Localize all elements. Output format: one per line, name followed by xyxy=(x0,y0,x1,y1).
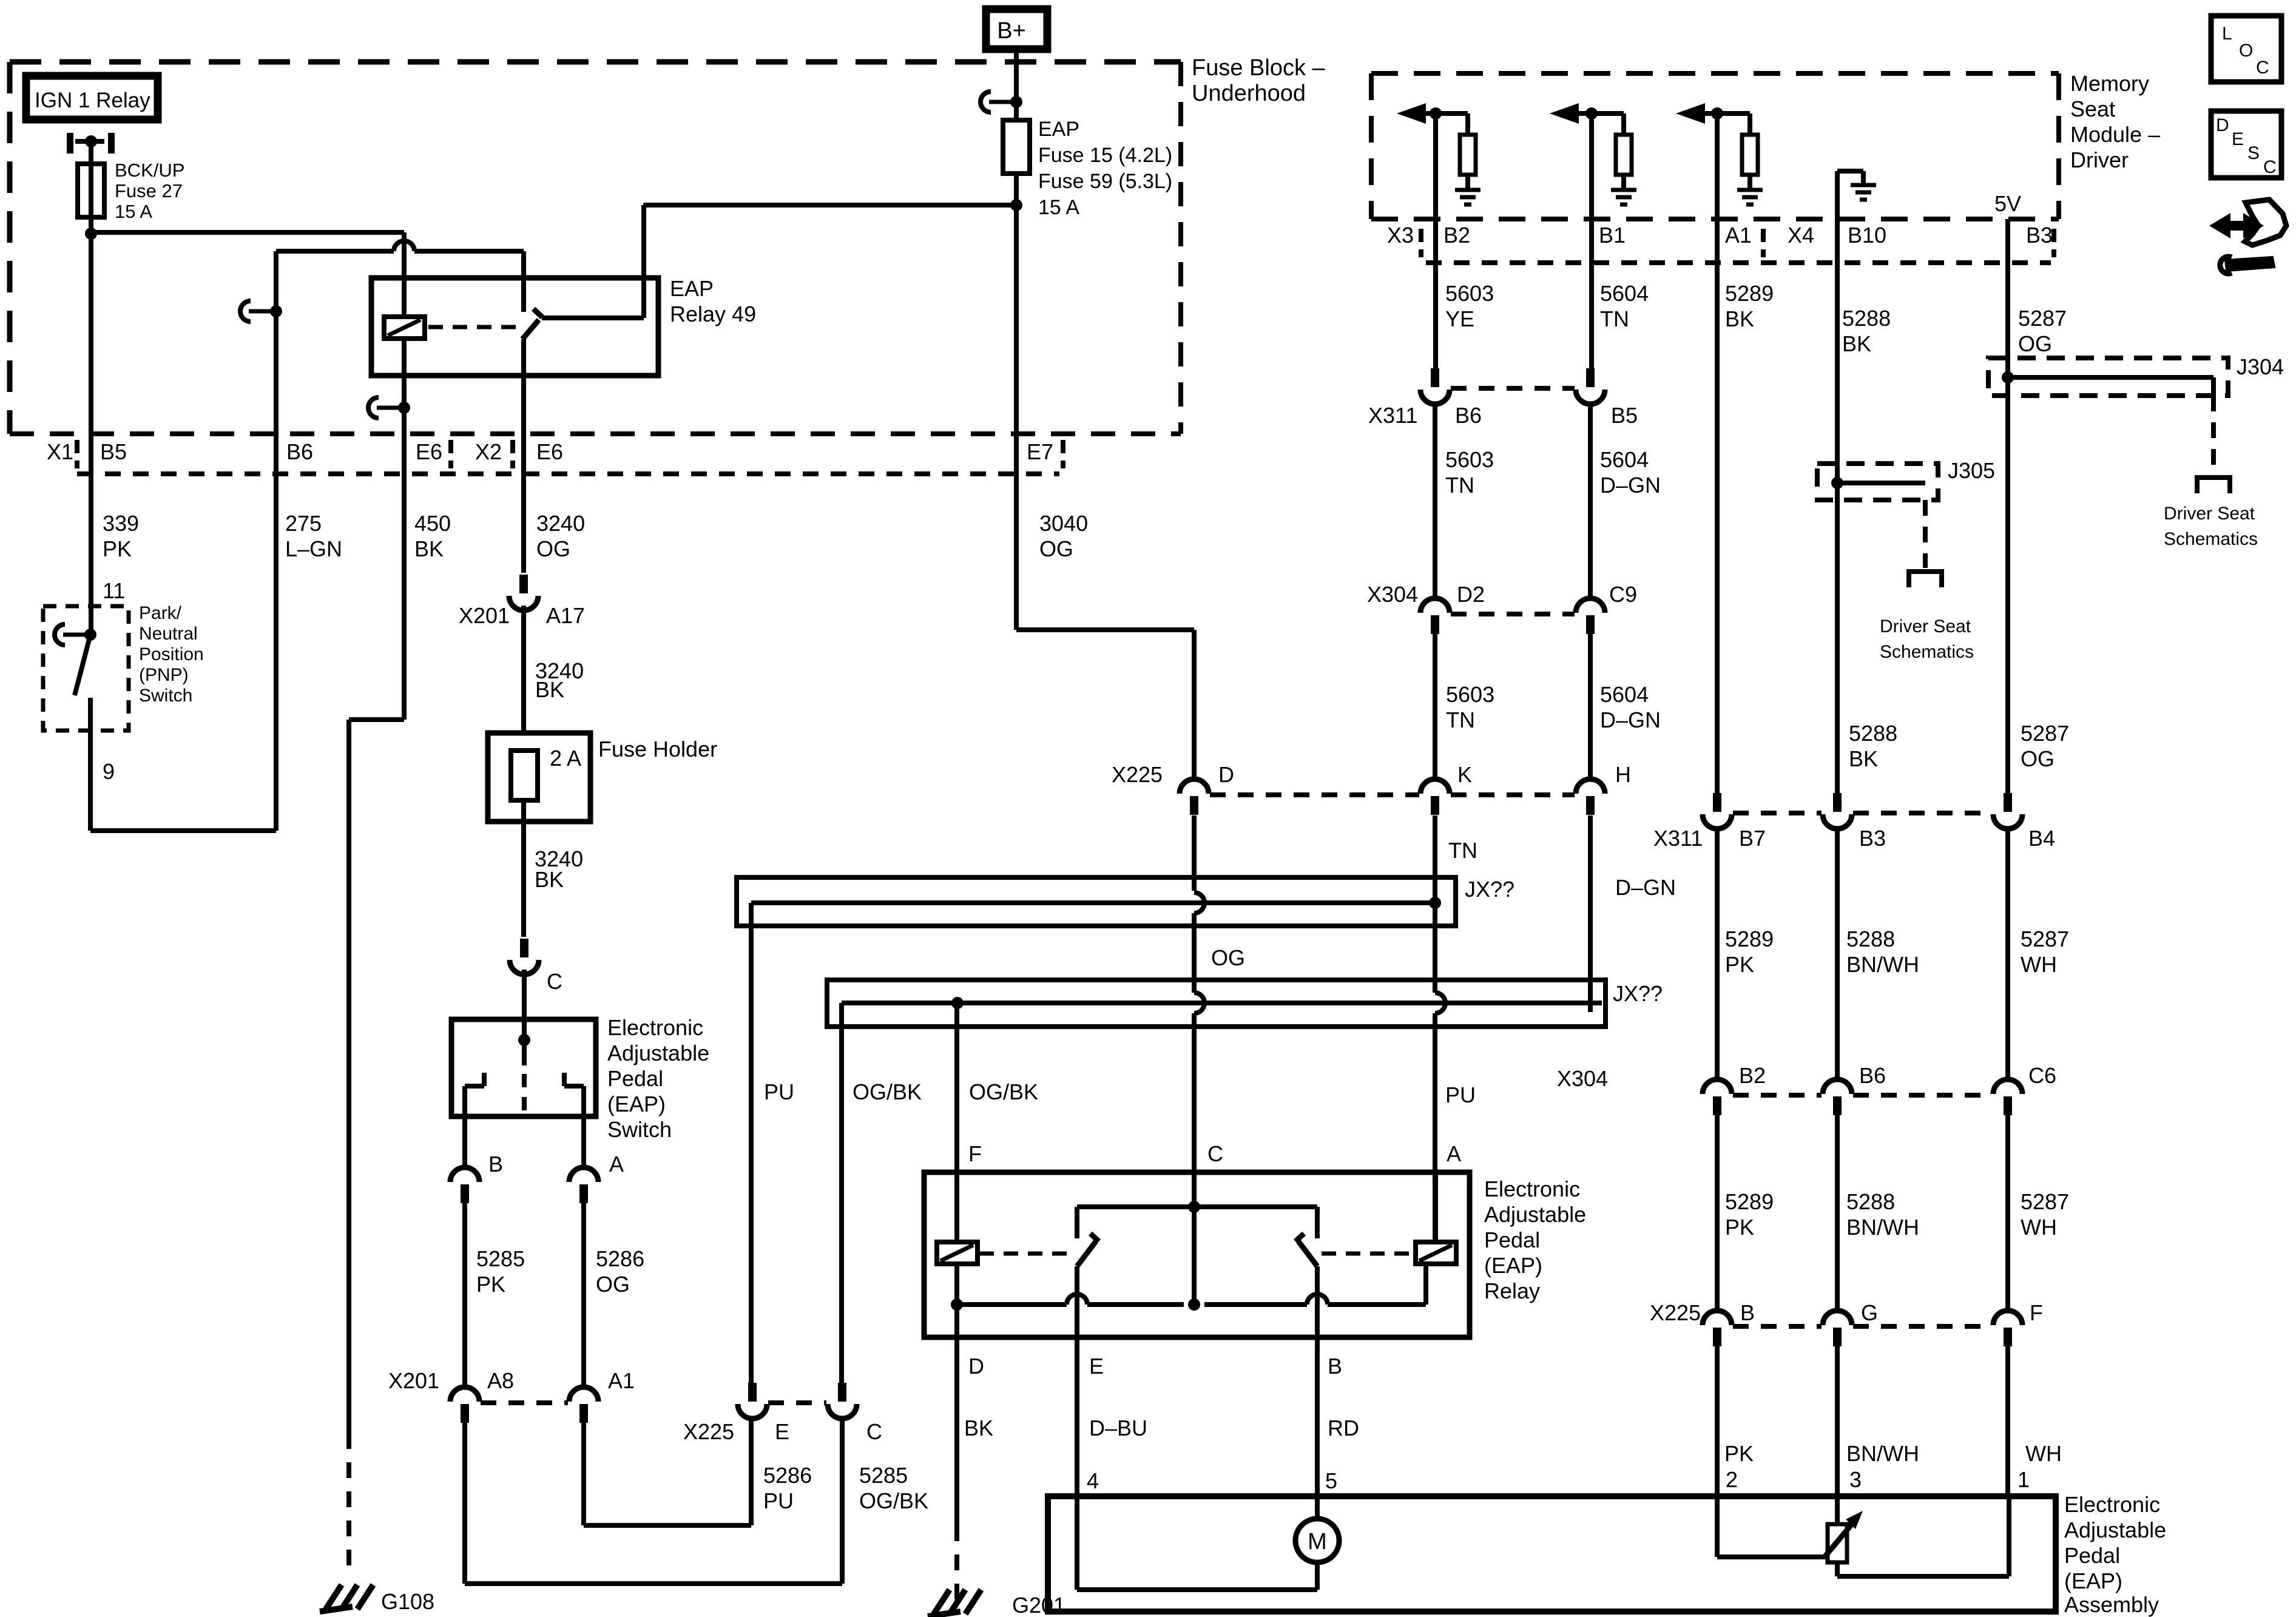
pins E and B down xyxy=(1075,1337,1079,1496)
JX bus1 inner wire xyxy=(751,900,1432,905)
svg-text:D: D xyxy=(2216,115,2229,135)
svg-text:OG/BK: OG/BK xyxy=(859,1488,928,1513)
svg-text:BN/WH: BN/WH xyxy=(1846,1441,1919,1466)
svg-text:G: G xyxy=(1861,1300,1878,1325)
svg-text:B4: B4 xyxy=(2028,826,2055,851)
svg-text:PU: PU xyxy=(763,1488,794,1513)
wire 275 L-GN riser to EAP relay coil xyxy=(274,311,279,831)
svg-text:15 A: 15 A xyxy=(115,201,152,222)
svg-text:D–GN: D–GN xyxy=(1600,707,1661,732)
Fuse Holder box xyxy=(488,733,590,822)
svg-text:PK: PK xyxy=(1724,1441,1754,1466)
svg-text:11: 11 xyxy=(103,578,125,603)
svg-text:A1: A1 xyxy=(608,1368,635,1393)
actuator dash xyxy=(428,325,521,329)
column wires below module xyxy=(1433,219,1438,368)
svg-text:5287: 5287 xyxy=(2018,306,2067,331)
relay cavity posts xyxy=(67,133,73,154)
svg-text:Pedal: Pedal xyxy=(607,1066,663,1091)
svg-text:OG/BK: OG/BK xyxy=(853,1079,922,1104)
svg-text:4: 4 xyxy=(1087,1468,1099,1493)
svg-text:B: B xyxy=(1740,1300,1755,1325)
wire pin9 to 275 xyxy=(90,828,276,833)
EAP Switch box xyxy=(451,1019,596,1116)
svg-text:275: 275 xyxy=(285,511,322,536)
svg-text:2: 2 xyxy=(1726,1467,1738,1492)
svg-text:X201: X201 xyxy=(388,1368,439,1393)
svg-text:Schematics: Schematics xyxy=(2164,529,2258,549)
svg-text:B: B xyxy=(1328,1354,1342,1379)
svg-text:WH: WH xyxy=(2021,952,2057,977)
svg-text:Relay: Relay xyxy=(1484,1278,1540,1303)
TN wire K-column xyxy=(1433,815,1437,903)
blades xyxy=(1090,1234,1099,1241)
common bar xyxy=(1077,1204,1317,1209)
svg-text:C: C xyxy=(1207,1141,1223,1166)
svg-text:3240: 3240 xyxy=(536,511,585,536)
connector xyxy=(1431,368,1439,387)
svg-text:TN: TN xyxy=(1446,707,1475,732)
DESC reference box xyxy=(2211,111,2281,178)
connector xyxy=(838,1383,846,1402)
svg-text:BK: BK xyxy=(535,677,564,702)
JX bus 1 outline xyxy=(737,877,1456,926)
JX bus 2 outline xyxy=(827,980,1606,1027)
connector A xyxy=(569,1167,598,1182)
svg-text:JX??: JX?? xyxy=(1465,877,1514,902)
svg-text:5287: 5287 xyxy=(2021,927,2069,951)
pin 2 wire xyxy=(1715,1496,1720,1557)
svg-text:Electronic: Electronic xyxy=(607,1015,703,1040)
svg-text:Pedal: Pedal xyxy=(1484,1227,1540,1252)
svg-text:X304: X304 xyxy=(1557,1066,1608,1091)
svg-text:Electronic: Electronic xyxy=(2064,1492,2160,1517)
svg-text:Fuse 27: Fuse 27 xyxy=(115,180,183,201)
svg-text:5: 5 xyxy=(1325,1468,1337,1493)
X3/X4 row xyxy=(1426,260,2051,265)
svg-text:Driver Seat: Driver Seat xyxy=(2164,504,2255,524)
svg-text:Switch: Switch xyxy=(139,686,192,706)
svg-text:C6: C6 xyxy=(2028,1063,2056,1088)
connector xyxy=(1713,793,1721,812)
svg-text:X304: X304 xyxy=(1367,582,1418,607)
svg-text:B: B xyxy=(488,1152,503,1176)
svg-text:5285: 5285 xyxy=(476,1246,525,1271)
connector xyxy=(450,1387,479,1402)
svg-text:C: C xyxy=(547,969,562,994)
svg-text:Adjustable: Adjustable xyxy=(2064,1517,2166,1542)
svg-text:B2: B2 xyxy=(1739,1063,1766,1088)
OG/BK drop to relay F xyxy=(954,1003,959,1242)
svg-text:5604: 5604 xyxy=(1600,447,1649,472)
connector xyxy=(1993,1311,2022,1325)
LOC reference box xyxy=(2211,16,2281,82)
svg-text:B1: B1 xyxy=(1599,223,1626,248)
svg-text:5289: 5289 xyxy=(1725,1189,1774,1214)
connector xyxy=(1420,779,1450,794)
connector row line X1/X2 xyxy=(77,471,1059,476)
svg-text:5288: 5288 xyxy=(1846,927,1895,951)
relay 49 coil xyxy=(384,317,425,339)
svg-text:X225: X225 xyxy=(1650,1300,1701,1325)
svg-text:X2: X2 xyxy=(475,439,502,464)
svg-text:15 A: 15 A xyxy=(1038,196,1079,219)
svg-text:5287: 5287 xyxy=(2021,1189,2069,1214)
svg-text:O: O xyxy=(2239,41,2253,61)
svg-text:5288: 5288 xyxy=(1849,721,1897,746)
wires down from arrows xyxy=(1433,113,1438,219)
svg-text:D2: D2 xyxy=(1457,582,1485,607)
EAP Relay 49 box xyxy=(371,278,658,376)
svg-text:Driver Seat: Driver Seat xyxy=(1880,616,1971,636)
connector xyxy=(1576,598,1605,613)
Fuse Block Underhood outline xyxy=(10,59,1181,65)
svg-text:A: A xyxy=(609,1152,624,1176)
wire to G108 xyxy=(346,720,351,1433)
svg-text:OG/BK: OG/BK xyxy=(969,1079,1038,1104)
svg-text:BK: BK xyxy=(1725,306,1754,331)
svg-text:5288: 5288 xyxy=(1846,1189,1895,1214)
svg-text:5604: 5604 xyxy=(1600,281,1649,306)
svg-text:E: E xyxy=(2232,129,2244,149)
svg-text:2 A: 2 A xyxy=(550,746,581,771)
connector xyxy=(1420,598,1450,613)
svg-text:YE: YE xyxy=(1445,306,1474,331)
node below fuse 27 xyxy=(85,228,97,240)
svg-text:TN: TN xyxy=(1600,306,1629,331)
svg-text:J304: J304 xyxy=(2237,354,2284,379)
svg-text:Driver: Driver xyxy=(2070,147,2129,172)
adjust icon xyxy=(2209,213,2264,238)
svg-text:B5: B5 xyxy=(1611,403,1638,428)
connector xyxy=(1833,793,1842,812)
B+ label box xyxy=(986,9,1047,49)
svg-text:Assembly: Assembly xyxy=(2064,1592,2159,1617)
fuse EAP Fuse 15/59 xyxy=(1003,120,1030,174)
svg-text:X225: X225 xyxy=(1112,762,1163,787)
svg-text:Memory: Memory xyxy=(2070,71,2149,96)
module outputs: arrow+resistor+ground x3 xyxy=(1397,103,1426,124)
EAP Relay box xyxy=(924,1172,1470,1337)
svg-text:D–GN: D–GN xyxy=(1600,473,1661,498)
connector xyxy=(1703,1079,1732,1094)
svg-text:C: C xyxy=(866,1419,882,1444)
svg-text:B10: B10 xyxy=(1848,223,1886,248)
B+ feed horizontal xyxy=(643,203,1016,208)
svg-text:Adjustable: Adjustable xyxy=(607,1041,709,1065)
svg-text:Park/: Park/ xyxy=(139,603,182,623)
JX bus2 inner wire xyxy=(842,1001,1602,1005)
svg-text:EAP: EAP xyxy=(670,276,714,301)
svg-text:Neutral: Neutral xyxy=(139,624,198,644)
svg-text:5603: 5603 xyxy=(1445,281,1494,306)
svg-text:5286: 5286 xyxy=(763,1463,812,1488)
connector X201 A17 xyxy=(519,575,528,593)
svg-text:C: C xyxy=(2256,58,2269,78)
connector xyxy=(1823,1311,1852,1325)
pin D to G201 xyxy=(954,1337,959,1525)
svg-text:Fuse 59 (5.3L): Fuse 59 (5.3L) xyxy=(1038,170,1172,193)
connector xyxy=(1576,779,1605,794)
svg-text:F: F xyxy=(2030,1300,2043,1325)
motor M in EAP assembly xyxy=(1295,1519,1339,1562)
svg-text:5289: 5289 xyxy=(1725,281,1774,306)
svg-text:D–GN: D–GN xyxy=(1615,875,1676,900)
svg-text:450: 450 xyxy=(414,511,451,536)
svg-text:339: 339 xyxy=(103,511,139,536)
svg-text:5286: 5286 xyxy=(596,1246,644,1271)
svg-text:A: A xyxy=(1447,1141,1461,1166)
relay 49 switch xyxy=(641,205,646,318)
fuse BCK/UP Fuse 27 15A xyxy=(78,164,104,217)
svg-text:Pedal: Pedal xyxy=(2064,1543,2120,1568)
OG wire hops xyxy=(1192,815,1197,891)
svg-text:L–GN: L–GN xyxy=(285,536,342,561)
svg-text:G108: G108 xyxy=(381,1589,434,1614)
svg-text:5287: 5287 xyxy=(2021,721,2069,746)
svg-text:D: D xyxy=(1218,762,1234,787)
connector xyxy=(1823,1079,1852,1094)
potentiometer (pedal position sensor) xyxy=(1835,1496,1840,1524)
svg-text:RD: RD xyxy=(1328,1416,1359,1440)
svg-text:E6: E6 xyxy=(536,439,563,464)
svg-text:D–BU: D–BU xyxy=(1089,1416,1147,1440)
connector xyxy=(1180,779,1209,794)
svg-text:(PNP): (PNP) xyxy=(139,665,189,685)
svg-text:5285: 5285 xyxy=(859,1463,908,1488)
svg-text:5V: 5V xyxy=(1994,191,2021,216)
EAP relay coil 1 xyxy=(937,1242,977,1264)
svg-text:Module –: Module – xyxy=(2070,122,2160,147)
B10 internal ground xyxy=(1835,171,1840,219)
svg-text:OG: OG xyxy=(2018,331,2052,356)
svg-text:BK: BK xyxy=(1849,746,1878,771)
svg-text:A8: A8 xyxy=(487,1368,514,1393)
coil output 450 BK xyxy=(402,339,407,434)
svg-text:X225: X225 xyxy=(683,1419,734,1444)
svg-text:B2: B2 xyxy=(1443,223,1470,248)
svg-text:Fuse Block –: Fuse Block – xyxy=(1192,55,1326,81)
Memory Seat Module box xyxy=(1371,71,2059,76)
svg-text:WH: WH xyxy=(2021,1215,2057,1240)
connector B xyxy=(450,1167,479,1182)
svg-text:(EAP): (EAP) xyxy=(2064,1568,2122,1593)
svg-text:PU: PU xyxy=(764,1079,794,1104)
ground G108 xyxy=(326,1585,342,1609)
svg-text:X3: X3 xyxy=(1387,223,1414,248)
PU / OGBK wires up xyxy=(749,903,754,1383)
svg-text:IGN 1 Relay: IGN 1 Relay xyxy=(35,89,150,112)
wire 339 PK down xyxy=(89,234,93,635)
svg-text:5288: 5288 xyxy=(1842,306,1891,331)
svg-text:L: L xyxy=(2222,24,2232,44)
svg-text:Switch: Switch xyxy=(607,1117,672,1142)
svg-text:Schematics: Schematics xyxy=(1880,642,1974,662)
svg-text:OG: OG xyxy=(2021,746,2055,771)
svg-text:X201: X201 xyxy=(459,603,510,628)
svg-text:J305: J305 xyxy=(1948,458,1995,483)
connector xyxy=(748,1383,757,1402)
svg-text:X311: X311 xyxy=(1368,403,1417,428)
svg-text:B+: B+ xyxy=(997,18,1026,44)
EAP switch contacts xyxy=(465,1084,484,1089)
svg-text:Adjustable: Adjustable xyxy=(1484,1202,1586,1227)
EAP relay coil 2 xyxy=(1416,1242,1456,1264)
IGN 1 Relay label box xyxy=(26,76,158,120)
svg-text:X1: X1 xyxy=(47,439,73,464)
svg-text:OG: OG xyxy=(1211,945,1245,970)
svg-text:B3: B3 xyxy=(2026,223,2053,248)
PNP blade xyxy=(75,635,90,695)
svg-text:B5: B5 xyxy=(100,439,127,464)
svg-text:9: 9 xyxy=(103,759,115,784)
svg-text:Fuse Holder: Fuse Holder xyxy=(598,737,717,761)
svg-text:Position: Position xyxy=(139,644,204,664)
svg-text:BK: BK xyxy=(1842,331,1871,356)
svg-text:E: E xyxy=(1089,1354,1104,1379)
svg-text:B6: B6 xyxy=(1859,1063,1886,1088)
svg-text:3: 3 xyxy=(1849,1467,1862,1492)
wrench xyxy=(2226,257,2274,271)
svg-text:BN/WH: BN/WH xyxy=(1846,1215,1919,1240)
svg-text:PK: PK xyxy=(1725,1215,1754,1240)
svg-text:E7: E7 xyxy=(1027,439,1053,464)
connector xyxy=(569,1387,598,1402)
svg-text:E: E xyxy=(775,1419,789,1444)
svg-text:Seat: Seat xyxy=(2070,96,2115,121)
wire fuse27 feed xyxy=(89,141,93,234)
svg-text:PU: PU xyxy=(1445,1082,1476,1107)
connector C conn xyxy=(520,939,528,957)
jogs to X225 xyxy=(462,1423,467,1584)
svg-text:JX??: JX?? xyxy=(1613,981,1663,1006)
svg-text:TN: TN xyxy=(1448,838,1477,863)
connector xyxy=(1703,1311,1732,1325)
svg-text:B6: B6 xyxy=(286,439,313,464)
svg-text:PK: PK xyxy=(1725,952,1754,977)
svg-text:1: 1 xyxy=(2017,1467,2030,1492)
svg-text:(EAP): (EAP) xyxy=(607,1092,666,1116)
svg-text:(EAP): (EAP) xyxy=(1484,1253,1542,1278)
connector xyxy=(1993,1079,2022,1094)
svg-text:BK: BK xyxy=(964,1416,993,1440)
svg-text:C9: C9 xyxy=(1609,582,1637,607)
svg-text:Relay 49: Relay 49 xyxy=(670,302,756,326)
wire 3040 OG xyxy=(1016,627,1194,632)
fuse 2A xyxy=(511,751,538,800)
svg-text:OG: OG xyxy=(1039,536,1073,561)
svg-text:B3: B3 xyxy=(1859,826,1886,851)
pin A wire xyxy=(1433,1172,1438,1242)
wire 3240 OG/BK xyxy=(521,434,526,573)
svg-text:M: M xyxy=(1308,1529,1327,1555)
svg-text:X4: X4 xyxy=(1788,223,1814,248)
wires to X304 row2 xyxy=(1715,829,1720,1079)
svg-text:A1: A1 xyxy=(1725,223,1752,248)
svg-text:S: S xyxy=(2247,143,2260,163)
svg-text:BK: BK xyxy=(535,867,564,892)
svg-text:B6: B6 xyxy=(1455,403,1482,428)
svg-text:PK: PK xyxy=(476,1272,505,1297)
svg-text:5604: 5604 xyxy=(1600,682,1649,707)
svg-text:D: D xyxy=(968,1354,984,1379)
svg-text:B7: B7 xyxy=(1739,826,1766,851)
svg-text:A17: A17 xyxy=(546,603,585,628)
J305 splice xyxy=(1817,464,1938,500)
connector xyxy=(2004,793,2012,812)
actuator dashes xyxy=(979,1252,1073,1256)
pot wiper arrow xyxy=(1825,1517,1858,1557)
svg-text:TN: TN xyxy=(1445,473,1474,498)
svg-text:OG: OG xyxy=(536,536,570,561)
svg-text:EAP: EAP xyxy=(1038,118,1079,141)
B+ wire xyxy=(1014,49,1019,120)
EAP Assembly box xyxy=(1048,1496,2056,1612)
svg-text:5603: 5603 xyxy=(1445,447,1494,472)
svg-text:Fuse 15 (4.2L): Fuse 15 (4.2L) xyxy=(1038,144,1172,167)
svg-text:Electronic: Electronic xyxy=(1484,1176,1580,1201)
svg-text:3040: 3040 xyxy=(1039,511,1088,536)
D-GN wire H-column xyxy=(1588,815,1593,1012)
svg-text:OG: OG xyxy=(596,1272,630,1297)
svg-text:X311: X311 xyxy=(1653,826,1703,851)
svg-text:F: F xyxy=(968,1141,982,1166)
svg-text:BN/WH: BN/WH xyxy=(1846,952,1919,977)
bottom bar with hops xyxy=(957,1302,1067,1307)
svg-text:Underhood: Underhood xyxy=(1192,81,1306,106)
wire to EAP relay coil xyxy=(91,230,404,235)
connector xyxy=(1586,368,1595,387)
svg-text:E6: E6 xyxy=(416,439,442,464)
pin E/B wires xyxy=(1075,1266,1079,1337)
svg-text:5289: 5289 xyxy=(1725,927,1774,951)
J304 splice xyxy=(1988,358,2228,396)
svg-text:BK: BK xyxy=(414,536,444,561)
svg-text:5603: 5603 xyxy=(1446,682,1494,707)
svg-text:BCK/UP: BCK/UP xyxy=(115,160,184,181)
svg-text:PK: PK xyxy=(103,536,132,561)
svg-text:C: C xyxy=(2263,157,2277,177)
svg-text:K: K xyxy=(1457,762,1472,787)
svg-text:H: H xyxy=(1615,762,1631,787)
svg-text:WH: WH xyxy=(2025,1441,2062,1466)
